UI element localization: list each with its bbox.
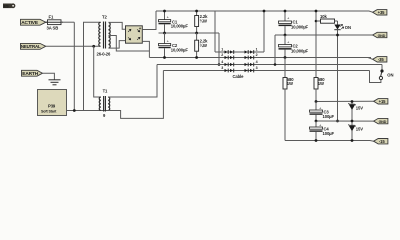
bridge rectifier BR1 <box>126 26 143 43</box>
wire -15 rail <box>285 140 374 143</box>
svg-text:EARTH: EARTH <box>22 71 38 77</box>
wire cable wire3 (0V) <box>157 64 382 66</box>
fuse F1 <box>46 14 64 30</box>
svg-text:T2: T2 <box>102 15 107 20</box>
switch SW1 ON <box>370 65 394 83</box>
wire fuse to T2 primary top <box>61 21 74 23</box>
svg-text:1W: 1W <box>318 81 324 86</box>
svg-text:10,000µF: 10,000µF <box>291 48 309 53</box>
wire EARTH to ground <box>43 73 55 79</box>
connector pins wire2 <box>221 53 257 59</box>
zener ZD2 15V <box>348 124 363 131</box>
wire T2 primary top <box>100 21 102 24</box>
svg-text:¼W: ¼W <box>200 43 207 48</box>
connector pins wire1 <box>221 48 257 54</box>
wire 0V mid rail left <box>159 32 220 34</box>
svg-text:¼W: ¼W <box>200 18 207 23</box>
svg-text:2: 2 <box>221 53 223 57</box>
svg-text:1: 1 <box>221 48 223 52</box>
capacitor C2 (left) <box>159 33 189 58</box>
svg-text:+35: +35 <box>378 10 386 15</box>
wire cable wire1 <box>215 51 264 53</box>
terminal GND lower <box>374 118 388 124</box>
svg-text:15V: 15V <box>356 127 363 132</box>
capacitor C3 100uF <box>310 100 335 121</box>
wire GND rail <box>316 120 374 122</box>
node 0V link to GND rail <box>336 120 339 123</box>
resistor R2 2.2k <box>195 33 208 58</box>
svg-text:10,000µF: 10,000µF <box>171 24 189 29</box>
svg-text:10,000µF: 10,000µF <box>171 47 189 52</box>
ESP logo <box>3 3 15 8</box>
wire T2 secondary bottom to bridge <box>109 41 126 49</box>
node soft start junction <box>73 109 76 112</box>
svg-text:-15: -15 <box>379 139 386 144</box>
terminal NEUTRAL <box>21 43 46 49</box>
node right C2 bottom / R3 tap on -35 <box>284 56 287 59</box>
svg-text:3A SB: 3A SB <box>47 26 59 31</box>
wire T1 secondary bottom loop to cable wire4 <box>108 71 163 119</box>
transformer T1 <box>99 89 110 118</box>
node ZD2 bottom on -15 rail <box>351 139 354 142</box>
terminal GND upper <box>373 32 387 38</box>
resistor R1 2.2k <box>195 11 208 33</box>
svg-text:100µF: 100µF <box>323 114 335 119</box>
resistor R5 10k LED feed <box>315 14 338 23</box>
node C4 bottom on -15 rail <box>315 139 318 142</box>
wire cable wire1 up to right +35 rail <box>263 11 265 52</box>
wire active drop to soft start <box>73 22 75 110</box>
wire right 0V rail <box>275 34 373 36</box>
svg-text:100µF: 100µF <box>323 131 335 136</box>
capacitor C2 (right) <box>279 35 309 58</box>
wire zener string <box>351 102 353 141</box>
resistor R4 680 (positive dropper) <box>314 11 325 102</box>
node neutral T1 drop <box>92 45 95 48</box>
svg-text:2: 2 <box>256 53 258 57</box>
svg-text:1: 1 <box>256 48 258 52</box>
wire +15 rail <box>316 100 374 102</box>
transformer T2 <box>97 15 112 57</box>
wire neutral drop to T1 primary top <box>94 46 101 97</box>
connector pins wire4 <box>221 66 257 72</box>
wire cable wire3 up to right 0V rail <box>274 35 276 65</box>
wire +35 rail <box>156 11 373 12</box>
capacitor C1 (right) <box>279 11 309 35</box>
svg-text:ON: ON <box>387 73 393 78</box>
svg-text:3: 3 <box>256 66 258 70</box>
svg-text:F1: F1 <box>49 14 54 19</box>
wire T2 center tap to 0V cable wire3 <box>109 36 150 52</box>
node right C1 top on +35 rail <box>284 10 287 13</box>
terminal -35 <box>373 57 387 63</box>
capacitor C1 (left) <box>159 11 189 33</box>
terminal +35 <box>373 10 387 16</box>
node C1 top on +35 rail <box>163 10 166 13</box>
svg-text:GND: GND <box>378 34 386 38</box>
svg-text:ES: ES <box>3 3 9 8</box>
svg-text:-35: -35 <box>378 57 385 62</box>
svg-text:GND: GND <box>379 120 387 124</box>
svg-text:NEUTRAL: NEUTRAL <box>21 44 41 49</box>
wire bridge positive out to +35 rail <box>142 11 156 30</box>
wire soft start return up to T2 primary <box>84 22 101 110</box>
wire -35 jog <box>368 58 373 60</box>
svg-text:10,000µF: 10,000µF <box>291 24 309 29</box>
connector pins wire3 <box>221 60 257 66</box>
node wire3 riser join <box>274 63 277 66</box>
wire cable wire4 (remote) <box>163 70 369 72</box>
svg-text:P39: P39 <box>48 104 56 109</box>
svg-text:10k: 10k <box>320 14 327 19</box>
wire +35 rail to cable wire1 <box>214 11 216 52</box>
node R1 top on +35 rail <box>195 10 198 13</box>
resistor R3 680 (negative dropper) <box>283 58 294 141</box>
svg-text:1W: 1W <box>287 81 293 86</box>
svg-text:3: 3 <box>221 66 223 70</box>
wire 0V rail to cable wire3 <box>218 33 220 65</box>
wire soft start to T1 primary bottom <box>67 110 121 112</box>
wire bridge negative out to -35 rail <box>142 41 149 57</box>
svg-text:Soft Start: Soft Start <box>41 109 57 113</box>
zener ZD1 15V <box>348 100 363 110</box>
node C4 top on GND rail <box>315 120 318 123</box>
svg-text:+: + <box>139 26 142 31</box>
svg-text:Cable: Cable <box>233 74 245 79</box>
node wire1 riser on right +35 rail <box>263 10 266 13</box>
node R4 column on +35 rail <box>315 10 318 13</box>
node C1-C2 join <box>163 32 166 35</box>
svg-text:+15: +15 <box>379 99 387 104</box>
svg-text:T1: T1 <box>103 89 108 94</box>
terminal ACTIVE <box>21 19 46 26</box>
node R2 bottom on -35 rail <box>195 56 198 59</box>
LED D1 ON <box>334 21 351 121</box>
capacitor C4 100uF <box>310 121 335 141</box>
svg-text:ACTIVE: ACTIVE <box>21 20 39 26</box>
terminal EARTH <box>22 70 43 77</box>
wire T2 secondary top to bridge <box>109 22 126 29</box>
ground <box>49 80 61 85</box>
svg-text:26-0-26: 26-0-26 <box>97 52 112 57</box>
svg-text:4: 4 <box>256 60 258 64</box>
wire T1 secondary top to cable wire3 <box>108 65 157 98</box>
node right C1-C2 join on 0V rail <box>284 34 287 37</box>
node C2 bottom on -35 rail <box>163 56 166 59</box>
svg-text:4: 4 <box>221 60 223 64</box>
terminal -15 <box>374 139 388 145</box>
node 0V drop join <box>218 63 221 66</box>
terminal +15 <box>374 99 388 105</box>
wire ACTIVE to fuse <box>46 21 48 23</box>
node zener join on GND rail <box>351 120 354 123</box>
module U1 P39 Soft Start <box>38 90 67 116</box>
svg-text:ON: ON <box>345 25 351 30</box>
node R1-R2 join on 0V rail <box>195 32 198 35</box>
wire NEUTRAL to T2 primary bottom <box>46 45 101 47</box>
node LED return to 0V rail <box>336 34 339 37</box>
svg-text:15V: 15V <box>356 106 363 111</box>
wire -35 rail / cable wire2 <box>149 57 371 59</box>
